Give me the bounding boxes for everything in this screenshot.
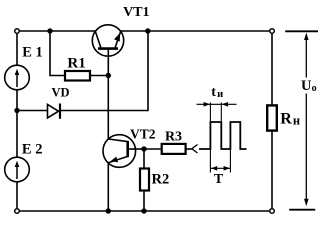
transistor VT1 emitter arrow bbox=[114, 33, 120, 42]
svg-text:VT1: VT1 bbox=[123, 5, 149, 20]
svg-text:T: T bbox=[214, 172, 224, 187]
wire R2 to bottom rail bbox=[143, 191, 145, 212]
current source E2 circle bbox=[5, 157, 30, 182]
terminal bottom left bbox=[15, 209, 20, 214]
wire left column between E1 and E2 bbox=[16, 90, 18, 157]
resistor Rn load body bbox=[267, 105, 277, 130]
current source E1 arrow bbox=[16, 72, 18, 87]
terminal top left bbox=[15, 29, 20, 34]
dimension tick ti left bbox=[209, 103, 211, 122]
junction node VT2 base / R2 / R3 bbox=[141, 146, 146, 151]
transistor VT1 collector lead bbox=[95, 31, 101, 47]
ti dimension arrow left bbox=[204, 102, 210, 107]
svg-text:VT2: VT2 bbox=[130, 127, 156, 142]
transistor VT2 circle bbox=[103, 135, 136, 168]
svg-text:R2: R2 bbox=[152, 171, 170, 187]
junction node R1 / VT1 base bbox=[106, 73, 111, 78]
wire R3 to input arrow bbox=[186, 148, 192, 150]
transistor VT1 base bar bbox=[98, 47, 118, 50]
junction node top rail / VD riser bbox=[145, 28, 150, 33]
wire R1 to VT1 base node bbox=[90, 75, 108, 77]
wire top rail left (terminal to VT1) bbox=[20, 30, 96, 32]
dimension tick T right bbox=[229, 150, 231, 173]
wire VD to top rail riser bbox=[61, 31, 148, 111]
current source E2 arrow bbox=[16, 164, 18, 179]
T dimension arrow right bbox=[224, 166, 230, 171]
pulse waveform bbox=[199, 122, 247, 149]
dimension line T bbox=[210, 167, 230, 169]
input signal arrowhead at R3 bbox=[192, 145, 198, 154]
wire VT2 base to node bbox=[129, 148, 144, 150]
junction node R2 / bottom rail bbox=[141, 208, 146, 213]
transistor VT2 collector lead bbox=[108, 139, 127, 142]
transistor VT2 emitter lead bbox=[108, 156, 127, 162]
junction node E column / VD branch bbox=[14, 108, 19, 113]
Uo dimension arrow down bbox=[304, 199, 309, 206]
wire R2 branch down bbox=[143, 149, 145, 169]
dimension tick ti right bbox=[220, 103, 222, 122]
diode VD triangle bbox=[48, 104, 59, 118]
Uo dimension bottom reference line bbox=[289, 209, 315, 211]
wire node to R3 bbox=[144, 148, 162, 150]
svg-text:E 2: E 2 bbox=[22, 142, 43, 158]
Uo dimension top reference line bbox=[285, 30, 318, 32]
svg-text:E 1: E 1 bbox=[22, 45, 43, 61]
svg-text:R3: R3 bbox=[165, 130, 182, 145]
junction node top rail / R1 branch bbox=[47, 28, 52, 33]
Uo dimension arrow up bbox=[304, 33, 309, 40]
transistor VT2 base bar bbox=[126, 141, 129, 157]
dimension line ti bbox=[197, 103, 237, 105]
transistor VT1 circle bbox=[92, 25, 123, 56]
wire bottom rail bbox=[20, 210, 270, 212]
wire VD branch horizontal bbox=[17, 110, 48, 112]
diode VD cathode bar bbox=[59, 104, 61, 119]
terminal top right bbox=[270, 29, 275, 34]
wire left column E1 top bbox=[16, 34, 18, 66]
resistor R2 body bbox=[140, 169, 149, 191]
wire top rail right (VT1 to output terminal) bbox=[121, 30, 270, 32]
wire VT1 base down to VT2 collector bbox=[107, 49, 109, 139]
wire left column E2 bottom bbox=[16, 182, 18, 208]
wire load branch lower bbox=[271, 131, 273, 209]
svg-text:R1: R1 bbox=[67, 55, 85, 71]
wire load branch upper bbox=[271, 34, 273, 106]
Uo dimension line lower segment bbox=[305, 94, 307, 203]
wire R1 branch from top rail bbox=[50, 31, 65, 76]
transistor VT2 emitter arrow bbox=[110, 157, 118, 163]
dimension tick T left bbox=[209, 150, 211, 173]
junction node VT2 emitter / bottom rail bbox=[106, 208, 111, 213]
terminal bottom right bbox=[270, 209, 275, 214]
Uo dimension line upper segment bbox=[305, 35, 307, 78]
current source E1 circle bbox=[5, 65, 30, 90]
resistor R3 body bbox=[162, 144, 186, 154]
ti dimension arrow right bbox=[222, 102, 228, 107]
T dimension arrow left bbox=[211, 166, 217, 171]
svg-text:VD: VD bbox=[51, 85, 69, 99]
resistor R1 body bbox=[65, 71, 90, 81]
transistor VT1 emitter lead bbox=[115, 31, 121, 47]
svg-text:Rн: Rн bbox=[280, 110, 300, 127]
wire VT2 emitter down to bottom rail bbox=[107, 163, 109, 211]
